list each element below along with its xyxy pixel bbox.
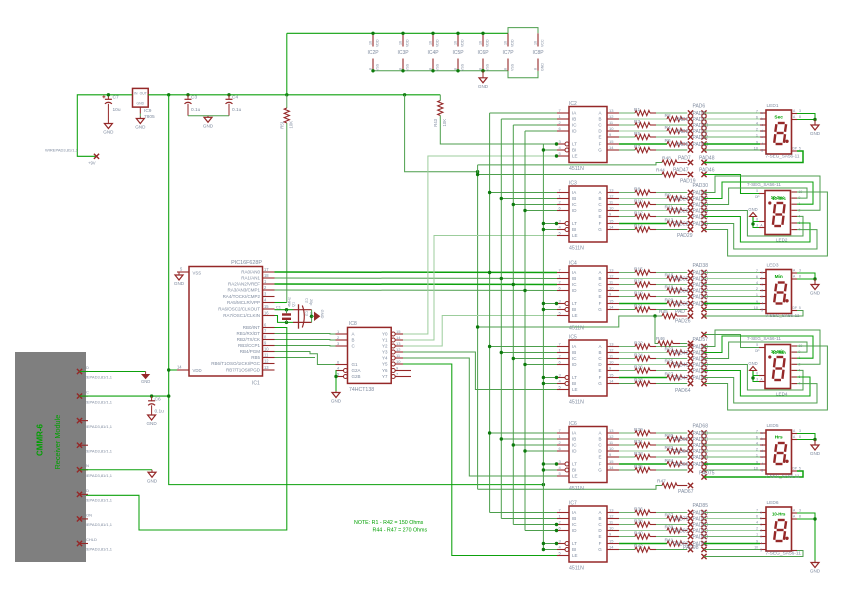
svg-text:10: 10 (609, 446, 614, 451)
wirepad output row 3 IC6 (688, 442, 693, 447)
LED6 DP pin (792, 550, 798, 552)
wirepad PAD53 (701, 362, 706, 367)
svg-text:IC1: IC1 (252, 381, 260, 387)
wirepad PAD70 (701, 436, 706, 441)
wirepad output row 5 IC2 (688, 134, 693, 139)
svg-text:G: G (598, 307, 602, 312)
svg-text:d: d (761, 289, 763, 293)
svg-text:74HCT138: 74HCT138 (349, 387, 374, 393)
IC1 pin 7 RB1/RX/DT (263, 333, 275, 335)
svg-text:PAD: PAD (675, 309, 685, 315)
wire bus to IC6 IC (513, 444, 557, 446)
svg-text:PAD57: PAD57 (693, 337, 709, 343)
svg-text:RA4/TOCKI/CMP2: RA4/TOCKI/CMP2 (223, 294, 261, 299)
svg-text:B: B (598, 196, 601, 201)
wire bus to IC5 ID (525, 364, 557, 366)
LED4 common anode pins (759, 375, 765, 377)
svg-text:BI: BI (572, 381, 576, 386)
7-segment display LED3 Min (766, 270, 792, 314)
svg-text:2: 2 (756, 287, 758, 291)
LED2 common anode pins (759, 221, 765, 223)
svg-text:10: 10 (754, 546, 758, 550)
IC8 input A (336, 333, 348, 335)
svg-text:GND: GND (810, 291, 821, 296)
module pin 6 (80, 493, 89, 495)
wire nest PAD to LED2 pin 9 (704, 176, 820, 210)
wirepad PAD86 (701, 510, 706, 515)
IC7 pin 12 segment B (607, 518, 619, 520)
svg-text:7-SEG_SA56-11: 7-SEG_SA56-11 (766, 551, 802, 557)
svg-text:E: E (598, 294, 601, 299)
IC4 pin 9 segment E (607, 296, 619, 298)
IC2 pin 1 IB (557, 118, 569, 120)
svg-text:BI: BI (572, 148, 576, 153)
IC6 pin 2 IC (557, 444, 569, 446)
svg-text:7-SEG_SA56-11: 7-SEG_SA56-11 (766, 474, 800, 479)
wirepad PAD54 (701, 368, 706, 373)
svg-text:F: F (599, 462, 602, 467)
ground for supply pins (481, 69, 484, 72)
wire R43 to LT/BI bus (440, 116, 557, 145)
svg-text:IA: IA (572, 344, 576, 349)
wire PAD to LED5 segment f (704, 463, 760, 465)
wire PAD to LED1 segment b (704, 118, 760, 120)
wirepad PAD72 (701, 448, 706, 453)
svg-text:R8: R8 (634, 186, 640, 192)
svg-text:PAD19: PAD19 (680, 179, 696, 185)
wirepad PAD11 (701, 128, 706, 133)
svg-text:PAD34: PAD34 (673, 289, 689, 295)
IC1 pin 14 VDD (177, 369, 189, 371)
ground below C6 (151, 414, 153, 416)
IC3 pin 12 segment B (607, 198, 619, 200)
svg-text:RA3/AN3/CMP1: RA3/AN3/CMP1 (227, 288, 260, 293)
svg-text:R48: R48 (662, 156, 671, 162)
svg-text:1: 1 (756, 453, 758, 457)
IC6 pin 7 IA (557, 432, 569, 434)
IC5 pin 1 IB (557, 352, 569, 354)
svg-text:E: E (598, 368, 601, 373)
svg-text:B: B (598, 516, 601, 521)
wire bus to IC7 IC (513, 524, 557, 526)
capacitor C6 0.1u (151, 396, 153, 401)
IC4 pin 11 segment C (607, 284, 619, 286)
wire RB3 to IC8 C (275, 345, 336, 348)
wire nest PAD to LED2 pin 4 (704, 217, 810, 243)
wirepad PAD37 (701, 227, 706, 232)
svg-text:ID: ID (572, 449, 577, 454)
resistor R37 150 Ohm (619, 518, 667, 520)
IC8 output Y3 (391, 350, 395, 354)
svg-text:B: B (352, 338, 355, 343)
svg-text:4511N: 4511N (569, 166, 584, 172)
svg-text:IC: IC (572, 356, 577, 361)
svg-text:E: E (598, 214, 601, 219)
wire G2A G2B to ground (335, 371, 338, 392)
wire RA3 data D (275, 289, 558, 292)
IC8 enable G2B (336, 376, 344, 378)
wire RB1 to IC8 A (275, 333, 336, 336)
svg-text:Y3: Y3 (382, 350, 388, 355)
svg-text:2: 2 (756, 527, 758, 531)
svg-text:f: f (762, 142, 763, 146)
svg-text:b: b (760, 517, 762, 521)
wire nest PAD to LED4 pin 1 (704, 336, 813, 358)
svg-text:IC9: IC9 (144, 108, 152, 114)
svg-text:N: N (86, 463, 89, 468)
wirepad output row 3 IC2 (688, 122, 693, 127)
IC5 pin 5 LE (557, 389, 569, 391)
svg-text:BI: BI (572, 307, 576, 312)
svg-text:WIREPAD3,81/1,1: WIREPAD3,81/1,1 (45, 148, 79, 153)
svg-text:DP: DP (793, 306, 797, 310)
resistor R23 150 Ohm (619, 352, 667, 354)
svg-text:PAD81: PAD81 (673, 529, 689, 535)
wire RB2 to IC8 B (275, 339, 336, 342)
resistor R42 150 Ohm (619, 549, 635, 551)
svg-text:PAD43: PAD43 (673, 351, 689, 357)
svg-text:a: a (760, 511, 762, 515)
module pin 1 (80, 371, 89, 373)
svg-text:5: 5 (799, 467, 801, 471)
svg-text:10: 10 (754, 306, 758, 310)
svg-text:15: 15 (609, 219, 614, 224)
IC6 pin 6 ID (557, 450, 569, 452)
wire Y5 to IC7 LE (403, 364, 557, 556)
wire LED2 anodes to ground (753, 222, 759, 228)
wirepad output row 2 IC2 (688, 116, 693, 121)
LED4 DP pin (759, 347, 765, 349)
wirepad PAD13 (701, 141, 706, 146)
svg-text:d: d (761, 129, 763, 133)
svg-text:9: 9 (756, 460, 758, 464)
wire DP feed to R45 group3 (478, 316, 662, 327)
svg-text:B: B (598, 276, 601, 281)
IC1 pin 18 RA1/AN1 (263, 277, 275, 279)
svg-text:a: a (761, 431, 763, 435)
wirepad PAD42 (701, 288, 706, 293)
IC3 pin 2 IC (557, 204, 569, 206)
wire PAD to LED1 segment c (704, 124, 760, 126)
svg-text:GND: GND (810, 451, 821, 456)
wirepad after R46 (688, 341, 693, 346)
svg-text:GND: GND (103, 130, 114, 135)
wire bus to IC7 IA (490, 512, 557, 514)
4511 decoder IC3 (569, 186, 607, 242)
svg-text:14: 14 (609, 305, 614, 310)
svg-text:10: 10 (609, 126, 614, 131)
svg-text:4511N: 4511N (569, 399, 584, 405)
ground at module pin 1 (145, 372, 147, 375)
wirepad output row 5 IC7 (688, 534, 693, 539)
svg-text:A: A (598, 270, 601, 275)
svg-text:ID: ID (572, 129, 577, 134)
wire RA6 OSC2 to crystal (275, 309, 294, 311)
wire VDD jog to IC8P (508, 28, 538, 34)
svg-text:RA0/AN0: RA0/AN0 (241, 270, 260, 275)
IC3 pin 10 segment D (607, 210, 619, 212)
resistor R21 150 Ohm (619, 309, 635, 311)
wire RA2 data C (275, 283, 558, 286)
svg-text:0.1u: 0.1u (191, 107, 201, 113)
svg-text:RB5: RB5 (251, 355, 260, 360)
wire PAD to LED5 segment a (704, 432, 760, 434)
svg-text:c: c (761, 123, 763, 127)
7-segment display LED4 10-Min rotated (765, 345, 791, 389)
IC4 pin 15 segment F (607, 303, 619, 305)
wirepad output row 7 IC6 (688, 467, 693, 472)
svg-text:Min: Min (775, 274, 783, 280)
wirepad PAD73 (701, 454, 706, 459)
resistor R15 150 Ohm (619, 272, 635, 274)
svg-text:Y2: Y2 (382, 344, 388, 349)
wire bus to IC5 IC (513, 358, 557, 360)
wirepad output row 7 IC5 (688, 381, 693, 386)
wire RA1 data B (275, 277, 558, 280)
svg-text:RA1/AN1: RA1/AN1 (241, 276, 260, 281)
IC2 pin 14 segment G (607, 149, 619, 151)
svg-text:LE: LE (572, 474, 578, 479)
wire PAD to LED6 segment b (704, 518, 760, 520)
resistor R43 10K pullup LT/BI (439, 95, 441, 101)
svg-text:LE: LE (572, 553, 578, 558)
svg-text:A: A (598, 190, 601, 195)
IC2 pin 6 ID (557, 130, 569, 132)
svg-text:RB7/T1OSI/PGD: RB7/T1OSI/PGD (226, 368, 261, 373)
svg-text:g: g (761, 308, 763, 312)
wirepad output row 3 IC7 (688, 522, 693, 527)
supply pins IC8P (537, 33, 539, 46)
IC3 pin 13 segment A (607, 192, 619, 194)
wire PAD to LED1 segment g (704, 149, 760, 151)
svg-text:REPAD3,81/1,1: REPAD3,81/1,1 (84, 522, 113, 527)
svg-text:IC5P: IC5P (452, 50, 464, 56)
svg-text:R26: R26 (634, 364, 643, 370)
svg-text:R33: R33 (634, 451, 643, 457)
svg-text:VDD: VDD (406, 39, 410, 47)
resistor R3 150 Ohm (619, 124, 635, 126)
svg-text:RA7/OSC1/CLKIN: RA7/OSC1/CLKIN (223, 313, 260, 318)
svg-text:PAD28: PAD28 (673, 222, 689, 228)
IC1 pin 9 RB3/CCP1 (263, 345, 275, 347)
svg-text:10: 10 (754, 146, 758, 150)
wire PAD to LED5 segment d (704, 450, 760, 452)
wirepad PAD87 (701, 516, 706, 521)
IC7 pin 1 IB (557, 518, 569, 520)
svg-text:d: d (761, 449, 763, 453)
svg-text:CHLD: CHLD (86, 537, 97, 542)
wire LED4 anodes to ground (753, 376, 759, 382)
svg-text:d: d (760, 529, 762, 533)
LED5 DP pin (792, 470, 798, 472)
svg-text:IC: IC (572, 443, 577, 448)
svg-text:C3: C3 (305, 311, 309, 316)
svg-text:4511N: 4511N (569, 325, 584, 331)
supply pins IC5P (457, 33, 459, 46)
resistor R35 150 Ohm (619, 469, 635, 471)
svg-text:12: 12 (609, 114, 614, 119)
svg-text:C1: C1 (276, 305, 282, 310)
IC7 pin 9 segment E (607, 536, 619, 538)
wirepad PAD75 (701, 467, 706, 472)
wirepad below IC4 (688, 313, 693, 318)
svg-text:R19: R19 (634, 290, 643, 296)
LED6 common anode pins (792, 512, 798, 514)
svg-text:R14: R14 (634, 223, 643, 229)
IC6 pin 14 segment G (607, 469, 619, 471)
module body CMMR-6 (15, 352, 86, 562)
svg-text:ID: ID (572, 288, 577, 293)
ground at LED5 (814, 440, 816, 445)
svg-text:LE: LE (572, 387, 578, 392)
IC2 pin 15 segment F (607, 143, 619, 145)
svg-text:PAD54: PAD54 (693, 369, 709, 375)
IC7 pin 4 BI (557, 549, 565, 551)
svg-text:15: 15 (264, 304, 269, 309)
svg-text:RB2/TX/CK: RB2/TX/CK (237, 337, 260, 342)
svg-text:15: 15 (609, 539, 614, 544)
wire PAD to LED1 segment e (704, 136, 760, 138)
IC5 pin 11 segment C (607, 358, 619, 360)
svg-text:GND: GND (147, 478, 158, 483)
resistor R20 150 Ohm (619, 303, 667, 305)
svg-text:C3: C3 (191, 95, 197, 101)
svg-text:IB: IB (572, 350, 576, 355)
svg-text:R46: R46 (656, 336, 665, 342)
svg-text:15: 15 (609, 139, 614, 144)
svg-text:4: 4 (756, 281, 758, 285)
svg-text:R24: R24 (634, 352, 643, 358)
wire LED5 anodes to ground (797, 434, 815, 440)
ground at IC8 enables (335, 391, 337, 393)
svg-text:7-SEG_SA56-11: 7-SEG_SA56-11 (766, 313, 800, 318)
svg-text:3: 3 (799, 509, 801, 513)
svg-text:LE: LE (572, 233, 578, 238)
module pin 5 (80, 469, 89, 471)
wirepad PAD33 (701, 202, 706, 207)
capacitor C1 20p (286, 310, 288, 314)
supply pins IC7P (507, 33, 509, 46)
wire bus to IC5 IB (501, 352, 557, 354)
svg-text:GND: GND (135, 125, 146, 130)
wire PAD98 to LED6 decimal point (704, 551, 803, 557)
IC4 pin 5 LE (557, 315, 569, 317)
wire nest PAD to LED4 pin 10 (704, 342, 807, 359)
wirepad output row 7 IC7 (688, 547, 693, 552)
wire PAD to LED3 segment e (704, 296, 760, 298)
svg-text:IC8: IC8 (349, 321, 357, 327)
svg-text:GND: GND (748, 361, 757, 366)
svg-text:LE: LE (572, 313, 578, 318)
svg-text:PAD64: PAD64 (675, 388, 691, 394)
svg-text:10: 10 (609, 526, 614, 531)
wire Y4 to IC6 LE (403, 358, 557, 476)
svg-text:Y5: Y5 (382, 362, 388, 367)
svg-text:C6: C6 (155, 397, 161, 403)
resistor R13 150 Ohm (619, 223, 667, 225)
svg-text:g: g (760, 548, 762, 552)
IC7 pin 14 segment G (607, 549, 619, 551)
IC3 pin 3 LT (557, 223, 565, 225)
svg-text:GND: GND (203, 123, 214, 128)
svg-text:GND: GND (810, 569, 821, 574)
wire Y1 to IC3 LE (403, 236, 557, 341)
resistor R34 150 Ohm (619, 463, 667, 465)
IC7 pin 5 LE (557, 555, 569, 557)
svg-text:10: 10 (264, 347, 269, 352)
wire DP branch to R46 (655, 316, 658, 344)
wirepad PAD88 (701, 522, 706, 527)
svg-text:VSS: VSS (376, 63, 380, 71)
svg-text:PAD32: PAD32 (673, 277, 689, 283)
svg-text:VCC: VCC (541, 39, 545, 47)
svg-text:10: 10 (396, 359, 401, 364)
wire PAD to LED3 segment f (704, 303, 760, 305)
IC4 pin 3 LT (557, 303, 565, 305)
ground below C3 C4 (188, 115, 208, 117)
LED2 DP pin (759, 193, 765, 195)
svg-text:RB1/RX/DT: RB1/RX/DT (236, 331, 260, 336)
svg-text:10: 10 (609, 360, 614, 365)
svg-text:4: 4 (756, 121, 758, 125)
IC4 pin 14 segment G (607, 309, 619, 311)
svg-text:4MHz: 4MHz (288, 297, 292, 307)
svg-text:R36: R36 (634, 506, 643, 512)
svg-text:4511N: 4511N (569, 565, 584, 571)
svg-text:11: 11 (264, 353, 269, 358)
wirepad output row 6 IC3 (688, 221, 693, 226)
resistor R25 150 Ohm (619, 364, 667, 366)
svg-text:12: 12 (609, 434, 614, 439)
IC6 pin 9 segment E (607, 456, 619, 458)
wirepad output row 6 IC5 (688, 375, 693, 380)
resistor R47 270 Ohm DP (662, 483, 677, 488)
wirepad PAD55 (701, 375, 706, 380)
IC8 input B (336, 339, 348, 341)
svg-text:DP: DP (793, 467, 797, 471)
wire PAD45 to LED2 decimal point (704, 175, 765, 194)
wirepad PAD8 (701, 110, 706, 115)
svg-text:b: b (761, 277, 763, 281)
svg-text:LE: LE (572, 154, 578, 159)
svg-text:Y7: Y7 (382, 374, 388, 379)
IC3 pin 15 segment F (607, 223, 619, 225)
svg-text:IC7P: IC7P (502, 50, 514, 56)
svg-text:VDD: VDD (376, 39, 380, 47)
svg-text:16: 16 (479, 41, 483, 45)
wire nest PAD to LED4 pin 4 (704, 371, 810, 397)
svg-text:A: A (598, 344, 601, 349)
wire LT/BI bus vertical (542, 144, 544, 549)
IC1 pin 12 RB6/T1OSO/1ICKI/PGC (263, 363, 275, 365)
IC5 pin 14 segment G (607, 383, 619, 385)
svg-text:PAD62: PAD62 (673, 437, 689, 443)
resistor R17 150 Ohm (619, 284, 635, 286)
IC1 pin 3 RA4/TOCKI/CMP2 (263, 296, 275, 298)
IC8 output Y2 (391, 344, 395, 348)
svg-text:PAD26: PAD26 (673, 209, 689, 215)
wirepad PAD12 (701, 134, 706, 139)
wirepad PAD44 (701, 301, 706, 306)
svg-text:10-Sec: 10-Sec (772, 196, 786, 201)
wire PAD to LED1 segment f (704, 143, 760, 145)
wire VSS jog to IC8P (508, 71, 538, 78)
svg-text:e: e (761, 295, 763, 299)
wirepad below IC2 row2 (688, 172, 693, 177)
IC5 pin 4 BI (557, 383, 565, 385)
svg-text:Receiver Module: Receiver Module (53, 415, 62, 470)
wire VSS bottom rail of supply pins (373, 70, 508, 72)
